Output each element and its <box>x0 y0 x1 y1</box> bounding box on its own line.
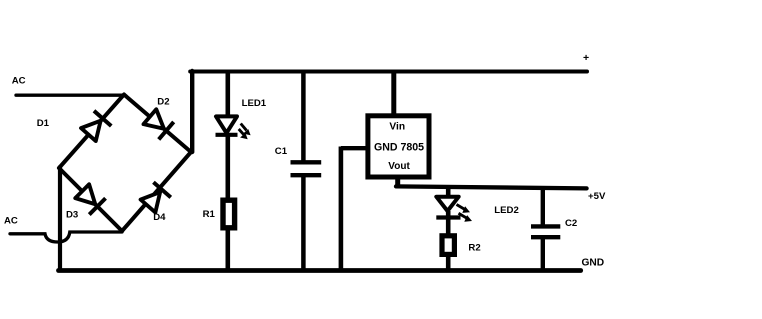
svg-text:+5V: +5V <box>588 191 606 202</box>
svg-text:Vout: Vout <box>388 161 410 172</box>
capacitor C2 <box>531 224 560 228</box>
wire 7805 GND pin <box>341 146 366 150</box>
wire C1 top <box>301 70 306 161</box>
diode D1 <box>80 111 111 142</box>
wire LED1 cathode to R1 <box>226 135 231 199</box>
diode D4 <box>139 182 170 213</box>
wire LED2 anode <box>446 188 451 197</box>
svg-text:C2: C2 <box>565 218 577 229</box>
wire LED2 cathode to R2 <box>446 211 451 234</box>
svg-text:D4: D4 <box>153 212 166 223</box>
svg-text:C1: C1 <box>275 146 288 157</box>
wire Vin from plus rail <box>391 71 396 114</box>
wire bridge edge left-top <box>59 95 124 169</box>
svg-text:LED1: LED1 <box>242 98 267 109</box>
wire LED1 anode <box>226 70 231 116</box>
svg-text:+: + <box>583 52 589 64</box>
svg-text:AC: AC <box>12 75 26 86</box>
resistor R1 <box>223 200 235 228</box>
wire bridge edge bottom-right <box>122 152 191 231</box>
LED LED1 <box>216 116 251 139</box>
svg-text:R2: R2 <box>468 243 480 254</box>
wire ground rail <box>59 268 581 273</box>
regulator U1 7805 <box>368 116 429 177</box>
wire Vout pin <box>395 177 400 187</box>
svg-text:GND: GND <box>582 257 605 268</box>
svg-text:D3: D3 <box>66 210 78 221</box>
wire left vertical (bridge left vertex to ground rail) <box>58 167 62 270</box>
wire AC bottom input with hop <box>10 232 122 242</box>
svg-text:D1: D1 <box>37 118 50 129</box>
wire bridge right vertex to plus rail <box>190 71 194 152</box>
svg-text:LED2: LED2 <box>494 205 519 216</box>
svg-text:R1: R1 <box>203 209 216 220</box>
wire bridge edge top-right <box>124 95 191 153</box>
wire C2 top <box>541 188 545 225</box>
wire C2 bottom <box>541 238 545 270</box>
svg-text:D2: D2 <box>157 96 169 107</box>
capacitor C1 <box>291 160 322 164</box>
svg-text:Vin: Vin <box>389 122 405 133</box>
svg-text:AC: AC <box>4 215 18 226</box>
diode D3 <box>74 183 105 214</box>
wire C1 bottom <box>301 176 306 270</box>
wire bridge edge left-bottom <box>59 168 122 231</box>
resistor R2 <box>442 236 454 255</box>
wire plus rail <box>190 70 587 74</box>
wire AC top input <box>16 94 124 97</box>
wire R1 to ground rail <box>226 230 231 270</box>
diode D2 <box>142 108 173 139</box>
LED LED2 <box>436 197 472 222</box>
wire +5V rail <box>396 186 587 188</box>
wire R2 to ground rail <box>446 256 451 270</box>
svg-text:GND 7805: GND 7805 <box>374 141 424 153</box>
